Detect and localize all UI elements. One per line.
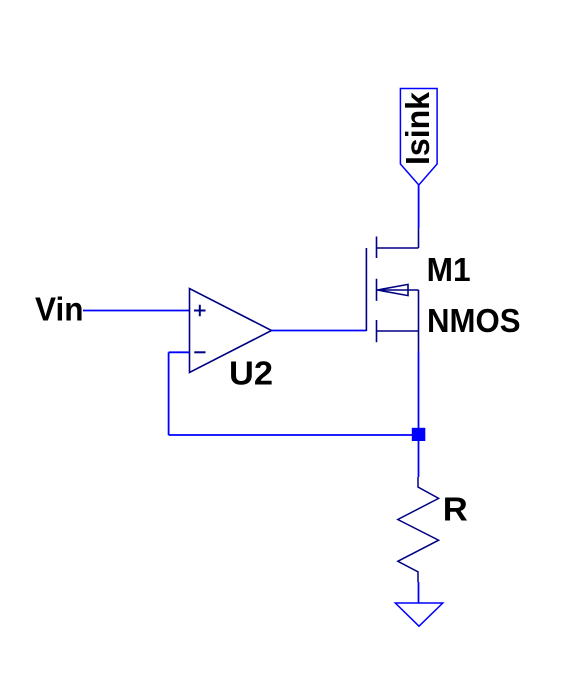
ground symbol (395, 603, 443, 626)
svg-text:U2: U2 (229, 355, 273, 392)
svg-text:M1: M1 (427, 252, 471, 289)
wire source to junction (418, 352, 420, 436)
flag Isink outline (400, 89, 437, 186)
wire drain to Isink flag (418, 185, 420, 228)
wire feedback horizontal (169, 434, 419, 436)
svg-text:NMOS: NMOS (427, 303, 521, 340)
wire Vin to op-amp non-inverting input (83, 310, 190, 312)
op-amp minus input marker (194, 351, 205, 353)
wire inverting input stub (169, 351, 190, 353)
svg-text:R: R (443, 492, 468, 529)
wire junction to resistor (418, 435, 420, 477)
transistor M1 NMOS symbol (366, 228, 418, 352)
wire op-amp output to gate (272, 330, 367, 332)
op-amp plus input marker (194, 305, 206, 317)
op-amp U1 triangle body (190, 289, 272, 373)
svg-text:Vin: Vin (35, 292, 84, 329)
wire feedback vertical (168, 352, 170, 435)
wire resistor to ground (418, 582, 420, 603)
svg-text:Isink: Isink (400, 92, 437, 165)
resistor R zigzag (398, 477, 439, 582)
junction node at source/resistor (412, 428, 426, 441)
